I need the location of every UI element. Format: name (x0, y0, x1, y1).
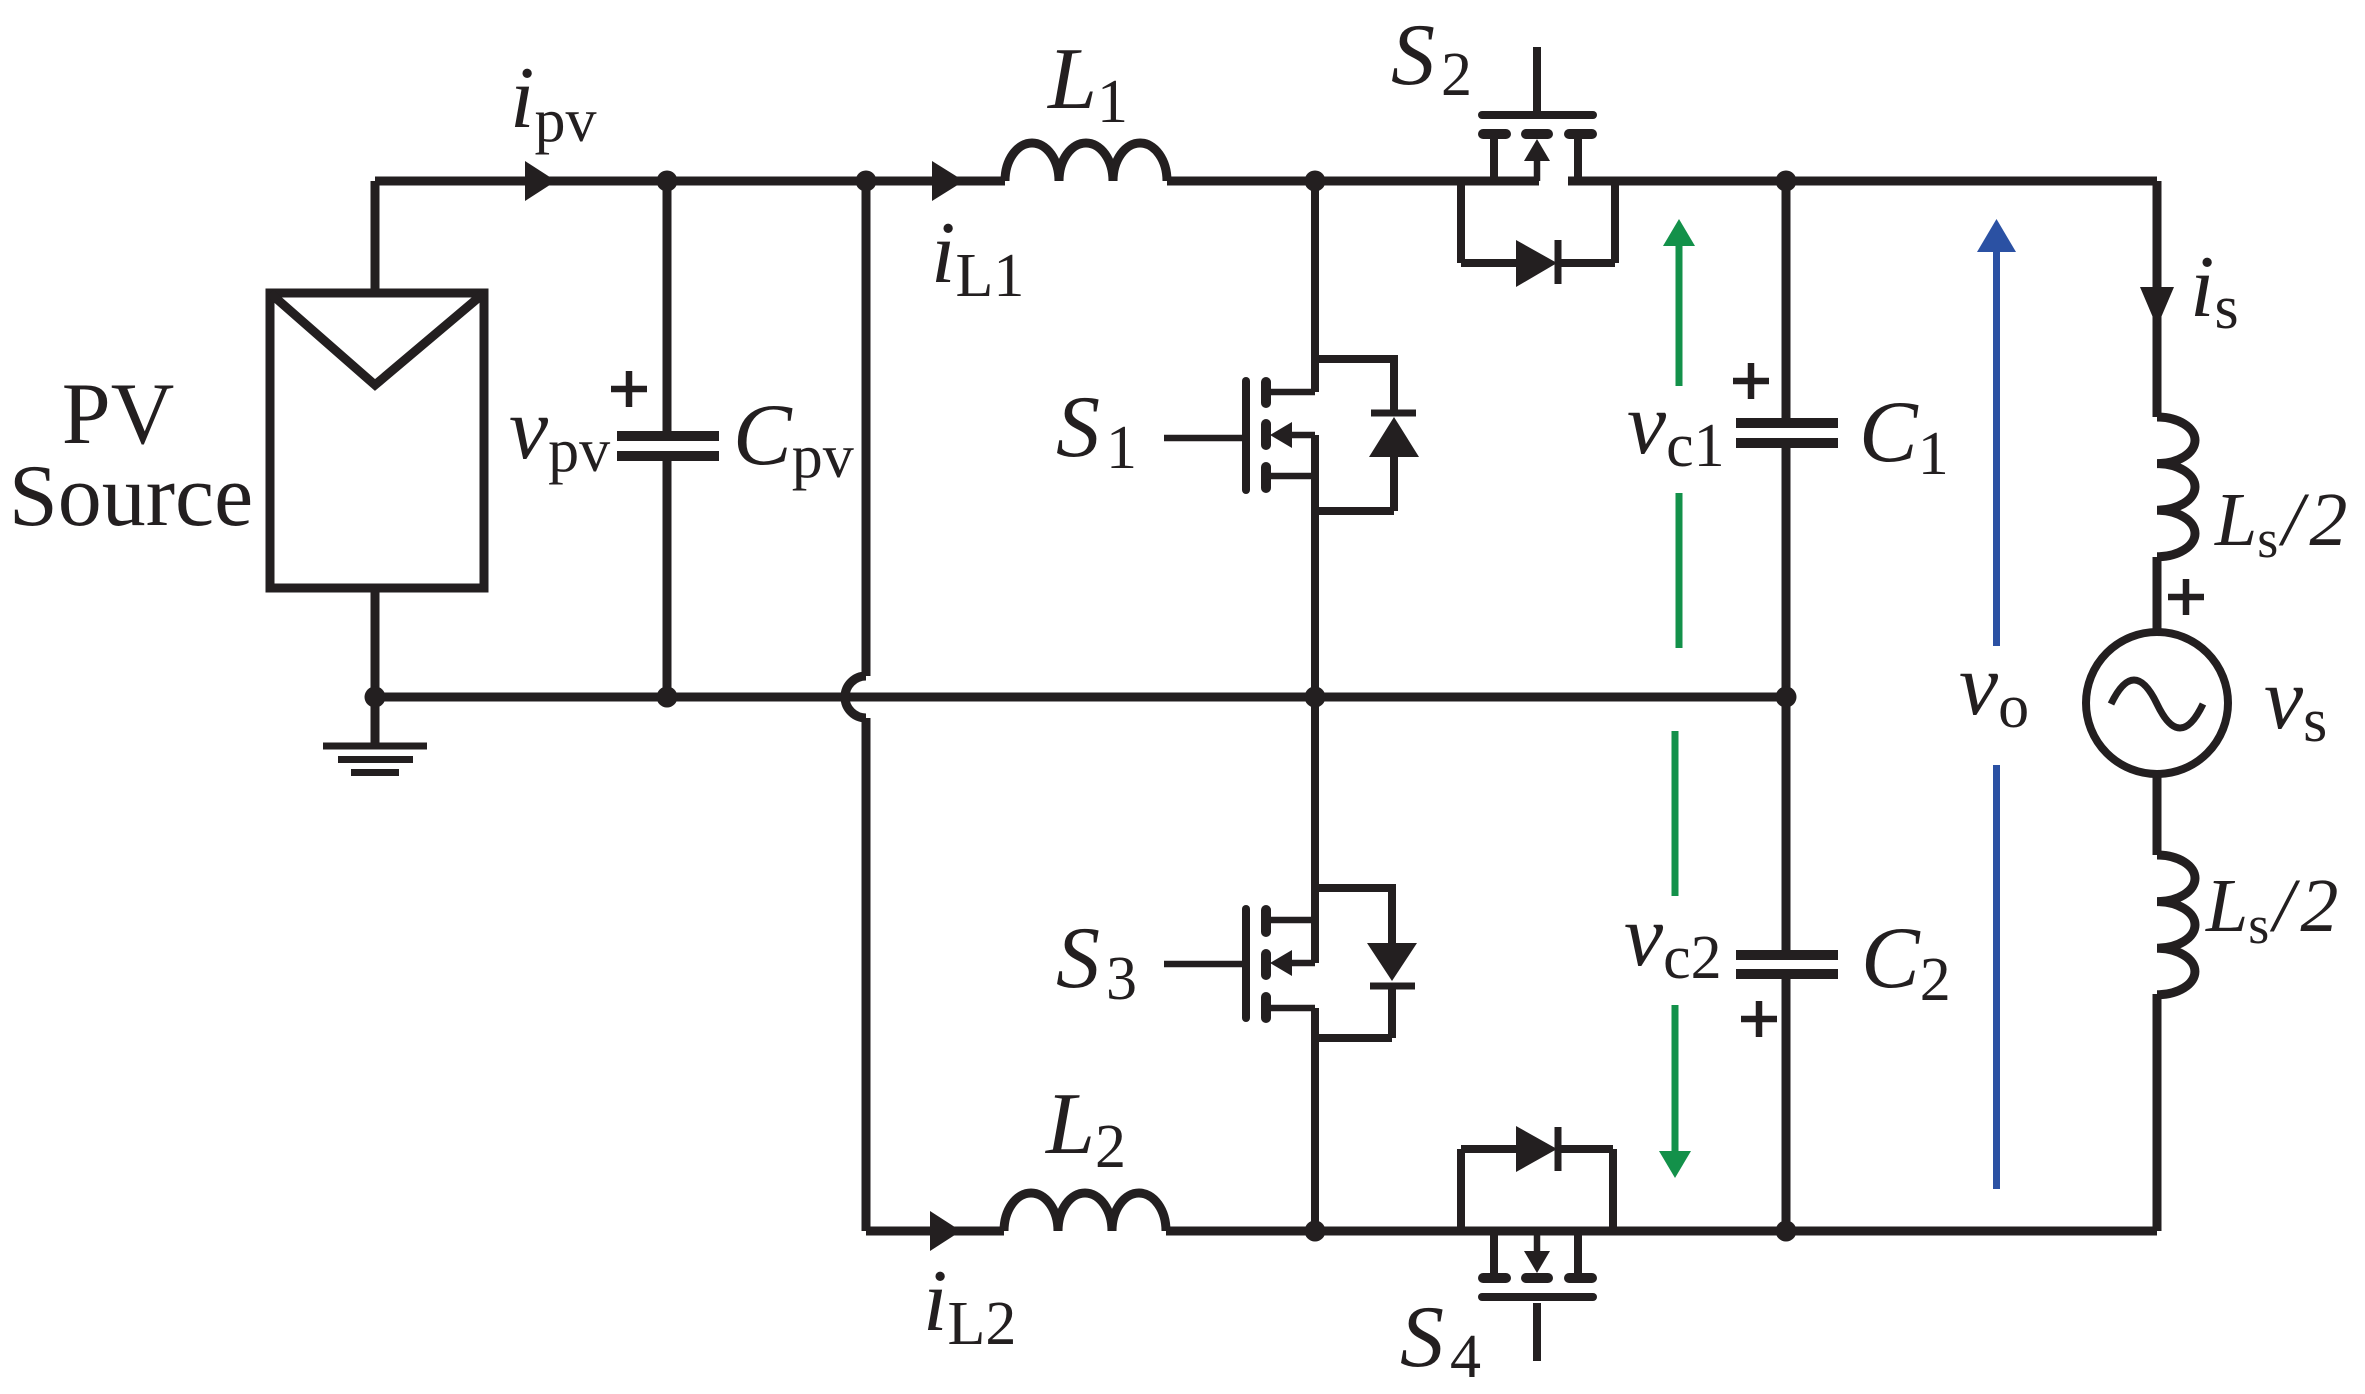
svg-text:Ls/2: Ls/2 (2214, 478, 2353, 569)
svg-text:Source: Source (9, 448, 253, 545)
svg-text:Ls/2: Ls/2 (2205, 864, 2344, 955)
